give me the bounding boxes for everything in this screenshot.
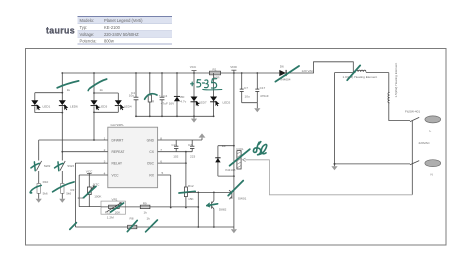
diode D2 IN4148 xyxy=(215,144,235,177)
label R2 1k xyxy=(67,88,71,92)
label R3 1k xyxy=(100,88,104,92)
annotation green stroke pair1 xyxy=(57,81,78,88)
schematic frame xyxy=(26,49,447,246)
trimmer VR1 box xyxy=(101,198,126,220)
LED LED3 xyxy=(91,100,108,110)
svg-text:Potencia:: Potencia: xyxy=(80,39,97,44)
svg-text:IN4148: IN4148 xyxy=(225,168,235,172)
svg-text:C7: C7 xyxy=(244,86,248,90)
svg-text:Voltage:: Voltage: xyxy=(80,32,95,37)
LED LED7 xyxy=(191,73,207,116)
transistor SW01 xyxy=(229,176,247,229)
resistor R1 46R on rail xyxy=(210,67,221,79)
power flag VDD xyxy=(230,65,237,73)
svg-text:D6: D6 xyxy=(280,65,284,69)
ground up pin8 xyxy=(199,133,206,137)
svg-text:4.7v: 4.7v xyxy=(180,100,186,104)
svg-text:470nF: 470nF xyxy=(260,94,269,98)
pin number 8 xyxy=(160,137,162,141)
ground caps xyxy=(254,108,260,112)
switch SW3 xyxy=(60,161,74,184)
wire pin7 CX xyxy=(158,151,193,153)
svg-text:C4: C4 xyxy=(163,94,167,98)
annotation green dash R12 xyxy=(179,191,195,193)
resistor R9 1k xyxy=(140,202,150,215)
LED pair 2 rectangle wires xyxy=(94,73,118,140)
svg-text:LED7: LED7 xyxy=(199,100,207,104)
annotation green slash coil xyxy=(230,149,250,166)
IC U1 GA724PL xyxy=(108,123,158,188)
svg-text:REPEAT: REPEAT xyxy=(112,150,125,154)
svg-text:47uF 16V: 47uF 16V xyxy=(161,102,175,106)
svg-text:RX: RX xyxy=(149,173,154,177)
power flag VCC on rail xyxy=(190,65,197,73)
diode D6 xyxy=(257,65,290,82)
wire pin2 REPEAT xyxy=(61,151,107,161)
annotation green ntc xyxy=(84,186,96,197)
annotation green slash R10 xyxy=(30,185,41,193)
ground SW01 xyxy=(231,229,237,233)
wire caps to ground xyxy=(242,103,258,109)
svg-text:1k: 1k xyxy=(147,217,151,221)
switch SW2 xyxy=(36,161,50,184)
svg-text:R9: R9 xyxy=(143,202,147,206)
svg-text:RELAY: RELAY xyxy=(112,161,123,165)
junction dots top rail xyxy=(61,72,258,113)
svg-text:220-240V 50/60HZ: 220-240V 50/60HZ xyxy=(104,32,139,37)
annotation green check C group xyxy=(145,94,157,100)
svg-text:120 VAC: 120 VAC xyxy=(302,69,315,73)
svg-text:DFWRT: DFWRT xyxy=(112,138,124,142)
svg-text:OSC: OSC xyxy=(147,161,155,165)
switch F&SW-401 xyxy=(405,109,420,121)
wire CX node down to R12 xyxy=(185,152,187,187)
ground near N branch xyxy=(331,164,337,170)
transistor Q1 D882 xyxy=(208,192,226,227)
wire pin4 VCC xyxy=(79,174,108,176)
LED LED1 xyxy=(31,100,50,110)
ground SW2 xyxy=(36,199,42,203)
svg-text:5k6: 5k6 xyxy=(66,192,71,196)
capacitor C6 47uF 16V xyxy=(159,73,175,116)
inductor 1.5kW heating element xyxy=(388,63,398,103)
LED LED6 xyxy=(59,100,78,110)
svg-text:SW2: SW2 xyxy=(44,164,51,168)
pin number 1 xyxy=(104,137,106,141)
svg-text:20K: 20K xyxy=(115,211,121,215)
svg-text:R8: R8 xyxy=(130,217,134,221)
svg-text:R: R xyxy=(152,99,155,103)
svg-text:R1: R1 xyxy=(213,67,217,71)
svg-text:223: 223 xyxy=(190,154,195,158)
resistor R12 15K xyxy=(184,184,194,209)
svg-text:Modelo:: Modelo: xyxy=(80,18,95,23)
wire pin6 OSC xyxy=(158,162,187,164)
relay coil RY1 xyxy=(236,147,244,169)
svg-text:LED4: LED4 xyxy=(124,105,132,109)
wire pin8 GND xyxy=(158,138,202,140)
wire switch common vertical xyxy=(411,121,413,195)
spec table xyxy=(78,17,173,45)
svg-text:5: 5 xyxy=(162,171,164,175)
svg-text:D2: D2 xyxy=(222,144,226,148)
svg-text:5k6: 5k6 xyxy=(43,192,48,196)
svg-text:Typ:: Typ: xyxy=(80,25,88,30)
connector L xyxy=(425,116,441,133)
svg-text:1k: 1k xyxy=(67,88,71,92)
pin number 6 xyxy=(160,160,162,164)
label 220VAC xyxy=(419,141,431,145)
svg-text:C2: C2 xyxy=(172,143,176,147)
power flag VCC ntc xyxy=(86,170,93,175)
label 120 VAC xyxy=(302,69,315,73)
svg-text:KE-2100: KE-2100 xyxy=(104,25,121,30)
svg-text:1k: 1k xyxy=(144,210,148,214)
resistor R8 on bottom row xyxy=(128,217,151,229)
svg-text:VDD: VDD xyxy=(230,65,237,69)
svg-text:+: + xyxy=(159,94,161,98)
svg-text:R17: R17 xyxy=(71,188,77,192)
ground under bus xyxy=(191,116,197,122)
svg-text:GND: GND xyxy=(147,138,155,142)
svg-text:800w: 800w xyxy=(104,39,114,44)
svg-text:LED1: LED1 xyxy=(43,105,51,109)
wire R9 row xyxy=(126,206,199,208)
annotation green slash heating element xyxy=(347,65,360,80)
resistor R5 xyxy=(148,73,155,116)
taurus logo xyxy=(46,26,75,36)
switch contact N xyxy=(410,161,419,165)
capacitor C3 223 xyxy=(188,140,195,158)
annotation green handwriting +5-35 xyxy=(191,79,222,90)
capacitor C2 102 xyxy=(172,140,179,158)
annotation green check SW2 xyxy=(31,162,39,171)
annotation green knot xyxy=(253,142,266,155)
svg-text:220VAC: 220VAC xyxy=(419,141,431,145)
svg-text:R12: R12 xyxy=(188,184,194,188)
LED LED4 xyxy=(115,100,132,110)
annotation green check SW3 xyxy=(55,162,63,171)
svg-text:102: 102 xyxy=(173,154,178,158)
capacitor C17 470nF xyxy=(255,73,269,103)
wire D6 output to heater jog xyxy=(287,62,354,73)
wire transistor row xyxy=(187,192,231,228)
capacitor C7 xyxy=(240,73,250,103)
annotation green slash D6 xyxy=(275,66,299,82)
pin number 2 xyxy=(104,148,106,152)
wire bottom row xyxy=(75,226,234,228)
LED LED2 xyxy=(210,73,230,116)
annotation green slash bottom1 xyxy=(127,220,137,231)
svg-text:ZD: ZD xyxy=(180,95,185,99)
resistor R11 5k6 xyxy=(61,184,72,199)
wire heating element line left stub xyxy=(335,72,389,74)
relay contact arrow xyxy=(243,158,246,162)
svg-text:VCC: VCC xyxy=(86,170,93,174)
annotation green slash R11 xyxy=(53,182,74,192)
pin number 7 xyxy=(160,148,162,152)
annotation green slash pin3 drop xyxy=(70,223,77,230)
svg-text:Planet Legend (Verti): Planet Legend (Verti) xyxy=(104,18,143,23)
relay main vertical xyxy=(233,73,235,176)
svg-text:VCC: VCC xyxy=(190,65,197,69)
pin number 3 xyxy=(104,160,106,164)
svg-text:15K: 15K xyxy=(188,197,194,201)
svg-text:LED2: LED2 xyxy=(223,101,231,105)
svg-text:10u: 10u xyxy=(245,95,250,99)
wire to L switch xyxy=(389,103,410,121)
wire relay contact run xyxy=(245,160,412,195)
annotation green D882 xyxy=(207,203,218,207)
connector N xyxy=(425,160,441,177)
svg-text:C3: C3 xyxy=(188,143,192,147)
pin number 4 xyxy=(104,171,106,175)
svg-text:L: L xyxy=(430,129,432,133)
wire N row xyxy=(335,163,411,165)
zener D5 4.7v xyxy=(174,73,187,116)
svg-text:1.5(kW) Heating Element: 1.5(kW) Heating Element xyxy=(394,63,398,98)
resistor R10 5k6 xyxy=(37,180,49,199)
junction dots bus xyxy=(135,115,214,117)
svg-text:SW01: SW01 xyxy=(238,196,247,200)
svg-text:COIL: COIL xyxy=(236,147,244,151)
junction N branch xyxy=(334,163,336,165)
wire pin5 RX xyxy=(158,175,172,208)
inductor 1.0kW heating element xyxy=(343,70,378,79)
wire pin3 RELAY xyxy=(75,163,107,227)
svg-text:VCC: VCC xyxy=(112,173,120,177)
wire bottom bus of LED/cap group xyxy=(136,115,214,117)
node N branch vertical xyxy=(334,73,336,164)
svg-text:R10: R10 xyxy=(43,180,49,184)
wire top rail xyxy=(62,72,257,74)
svg-text:D882: D882 xyxy=(219,207,227,211)
wire ntc network xyxy=(79,175,101,207)
wire element corner xyxy=(388,73,390,93)
pin number 5 xyxy=(162,171,164,175)
svg-text:LED3: LED3 xyxy=(100,105,108,109)
annotation green slash bottom2 xyxy=(146,220,158,232)
capacitor C4 10u xyxy=(129,73,139,116)
thermistor NTC 100K xyxy=(71,182,103,200)
LED pair 1 rectangle wires xyxy=(35,73,63,152)
svg-text:100K: 100K xyxy=(94,195,102,199)
svg-text:C17: C17 xyxy=(260,86,266,90)
svg-text:CX: CX xyxy=(149,150,154,154)
svg-text:GA724PL: GA724PL xyxy=(111,123,125,127)
ground SW3 xyxy=(59,199,65,203)
svg-text:LED6: LED6 xyxy=(70,105,78,109)
svg-text:taurus: taurus xyxy=(46,26,75,36)
svg-text:1k: 1k xyxy=(100,88,104,92)
svg-text:F&SW-401: F&SW-401 xyxy=(405,109,420,113)
svg-text:VR1: VR1 xyxy=(112,198,118,202)
annotation green stroke pair2 xyxy=(88,79,106,91)
svg-text:C4: C4 xyxy=(131,91,135,95)
svg-text:SW3: SW3 xyxy=(67,164,74,168)
svg-text:1.2M: 1.2M xyxy=(107,216,114,220)
wire pin1 DFWRT xyxy=(39,139,108,160)
annotation green slash SW01 xyxy=(228,181,243,196)
svg-text:R13: R13 xyxy=(105,211,111,215)
annotation green VR1 xyxy=(111,203,124,212)
svg-text:N: N xyxy=(431,173,433,177)
